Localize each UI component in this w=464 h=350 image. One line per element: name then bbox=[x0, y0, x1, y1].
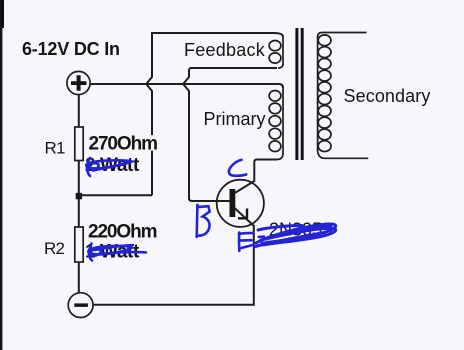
transistor base bar bbox=[230, 189, 236, 217]
svg-text:R1: R1 bbox=[45, 139, 65, 158]
scribble over 2 Watt (blue) bbox=[86, 158, 132, 176]
transformer primary winding L2 bbox=[269, 87, 283, 160]
wire + terminal to primary top bbox=[90, 84, 283, 88]
svg-text:Primary: Primary bbox=[204, 109, 266, 129]
label E (blue, handwritten) bbox=[239, 233, 264, 252]
transistor Q1 bbox=[217, 180, 264, 227]
battery - terminal bbox=[68, 293, 93, 318]
wire primary bottom to collector bbox=[254, 160, 277, 182]
label B (blue, handwritten) bbox=[197, 205, 210, 237]
resistor R2 bbox=[75, 227, 83, 262]
wire - terminal to emitter bbox=[93, 226, 254, 305]
resistor R1 bbox=[75, 127, 83, 161]
label C (blue, handwritten) bbox=[229, 160, 246, 176]
scribble over part number (blue) bbox=[255, 224, 336, 247]
transformer feedback winding L1 bbox=[269, 36, 283, 68]
battery + terminal bbox=[67, 71, 90, 94]
wire feedback top (to R1/R2 junction) with crossover hop bbox=[146, 33, 283, 195]
wire feedback bottom to base with crossover hop bbox=[183, 68, 277, 201]
emitter lead with arrow bbox=[234, 208, 255, 227]
label 270Ohm (opaque box over wire) bbox=[87, 135, 157, 151]
svg-text:Secondary: Secondary bbox=[344, 86, 431, 106]
wire + terminal down to R1 bbox=[78, 95, 80, 127]
svg-text:Feedback: Feedback bbox=[184, 40, 266, 60]
node junction dot R1/R2 bbox=[76, 193, 82, 199]
wire R1 to R2 bbox=[78, 161, 80, 228]
scribble over 1 Watt (blue) bbox=[88, 244, 146, 261]
wire R2 to - terminal bbox=[78, 262, 80, 293]
transformer secondary winding L3 bbox=[318, 33, 369, 159]
svg-text:220Ohm: 220Ohm bbox=[88, 221, 157, 242]
svg-text:R2: R2 bbox=[44, 239, 64, 258]
svg-text:6-12V DC In: 6-12V DC In bbox=[22, 39, 120, 59]
svg-text:270Ohm: 270Ohm bbox=[89, 133, 158, 154]
left screen edge bar bbox=[0, 0, 4, 28]
transformer core bbox=[297, 28, 302, 160]
wire junction to feedback vertical bbox=[79, 194, 152, 196]
collector lead bbox=[234, 181, 254, 194]
